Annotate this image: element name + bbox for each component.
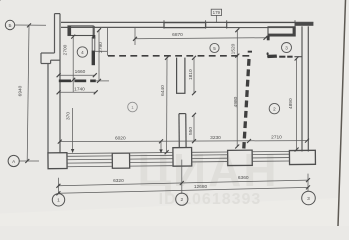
svg-text:3: 3 [307,196,310,202]
svg-text:1: 1 [57,198,60,204]
svg-text:4980: 4980 [233,96,239,107]
svg-text:4: 4 [81,50,84,55]
svg-text:1660: 1660 [75,69,86,75]
svg-text:370: 370 [65,112,71,120]
svg-text:1810: 1810 [188,69,194,80]
svg-text:1: 1 [131,105,134,110]
svg-text:550: 550 [188,127,194,135]
svg-text:3230: 3230 [210,135,221,141]
svg-text:5: 5 [213,46,216,51]
svg-text:ID 10618393: ID 10618393 [159,191,262,208]
svg-text:6360: 6360 [238,175,249,181]
svg-text:4890: 4890 [288,98,294,109]
svg-text:1520: 1520 [231,43,237,54]
svg-text:12680: 12680 [194,184,208,190]
svg-text:3: 3 [285,45,288,50]
svg-text:2700: 2700 [63,44,69,55]
svg-text:2: 2 [273,106,276,111]
svg-text:Б: Б [8,23,11,28]
svg-text:6440: 6440 [160,85,166,96]
svg-text:2710: 2710 [271,135,282,141]
svg-text:1740: 1740 [74,86,85,92]
svg-text:6870: 6870 [172,32,183,38]
svg-text:179: 179 [213,10,221,15]
svg-text:2790: 2790 [98,42,104,53]
svg-text:6940: 6940 [18,85,24,96]
svg-text:6320: 6320 [113,178,124,184]
svg-text:2: 2 [180,197,183,203]
svg-text:6020: 6020 [115,135,126,141]
